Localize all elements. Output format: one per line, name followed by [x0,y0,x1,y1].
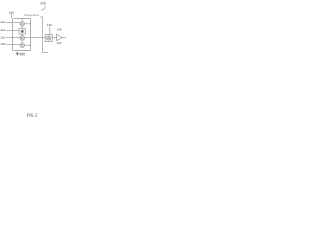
mixer X2 (circle with cross) [20,36,25,41]
wire X4 to amplifier A1 [52,37,56,39]
wire X3 to box right edge [25,44,31,46]
filter F1 (small box with dark glyph) [19,29,26,34]
wire leader hook from 200 [42,5,46,10]
svg-text:120: 120 [47,23,52,27]
wire LO vertical into X4 [49,27,51,35]
wire main output box to mixer X4 [31,37,46,39]
svg-text:Transceiver: Transceiver [24,13,40,17]
wire F1 to mixer X2 [21,34,23,36]
svg-text:FIG. 2: FIG. 2 [27,113,37,117]
wire L-path right side (top corner, down, bottom stub) [40,17,48,53]
svg-text:114: 114 [0,28,5,32]
svg-text:200: 200 [40,1,46,5]
amplifier A1 (triangle) [57,34,62,41]
caption under box [17,52,25,55]
svg-text:112: 112 [0,20,5,24]
wire X1 to box right edge [25,23,31,25]
mixer X4 (boxed circle) [45,35,52,42]
wire leader tick from 110 down to box top [10,15,12,19]
wire input stub 3 [6,37,20,39]
mixer X1 (circle with cross) [20,22,25,27]
svg-text:116: 116 [0,36,5,40]
wire input stub 2 [6,30,19,32]
mixer X3 (circle with cross) [20,43,25,48]
svg-text:118: 118 [0,42,5,46]
svg-text:132: 132 [57,41,62,45]
wire top connector to mixer X1 [21,19,23,22]
wire X1 to filter F1 [21,26,23,29]
svg-text:130: 130 [57,27,62,31]
wire X2 to box right edge [25,37,31,39]
wire X2 to mixer X3 [21,41,23,43]
svg-text:110: 110 [9,11,14,15]
wire amp output [62,37,66,39]
transceiver box U1 [13,19,31,51]
wire input stub 4 [6,44,21,46]
wire input stub 1 [6,22,21,24]
